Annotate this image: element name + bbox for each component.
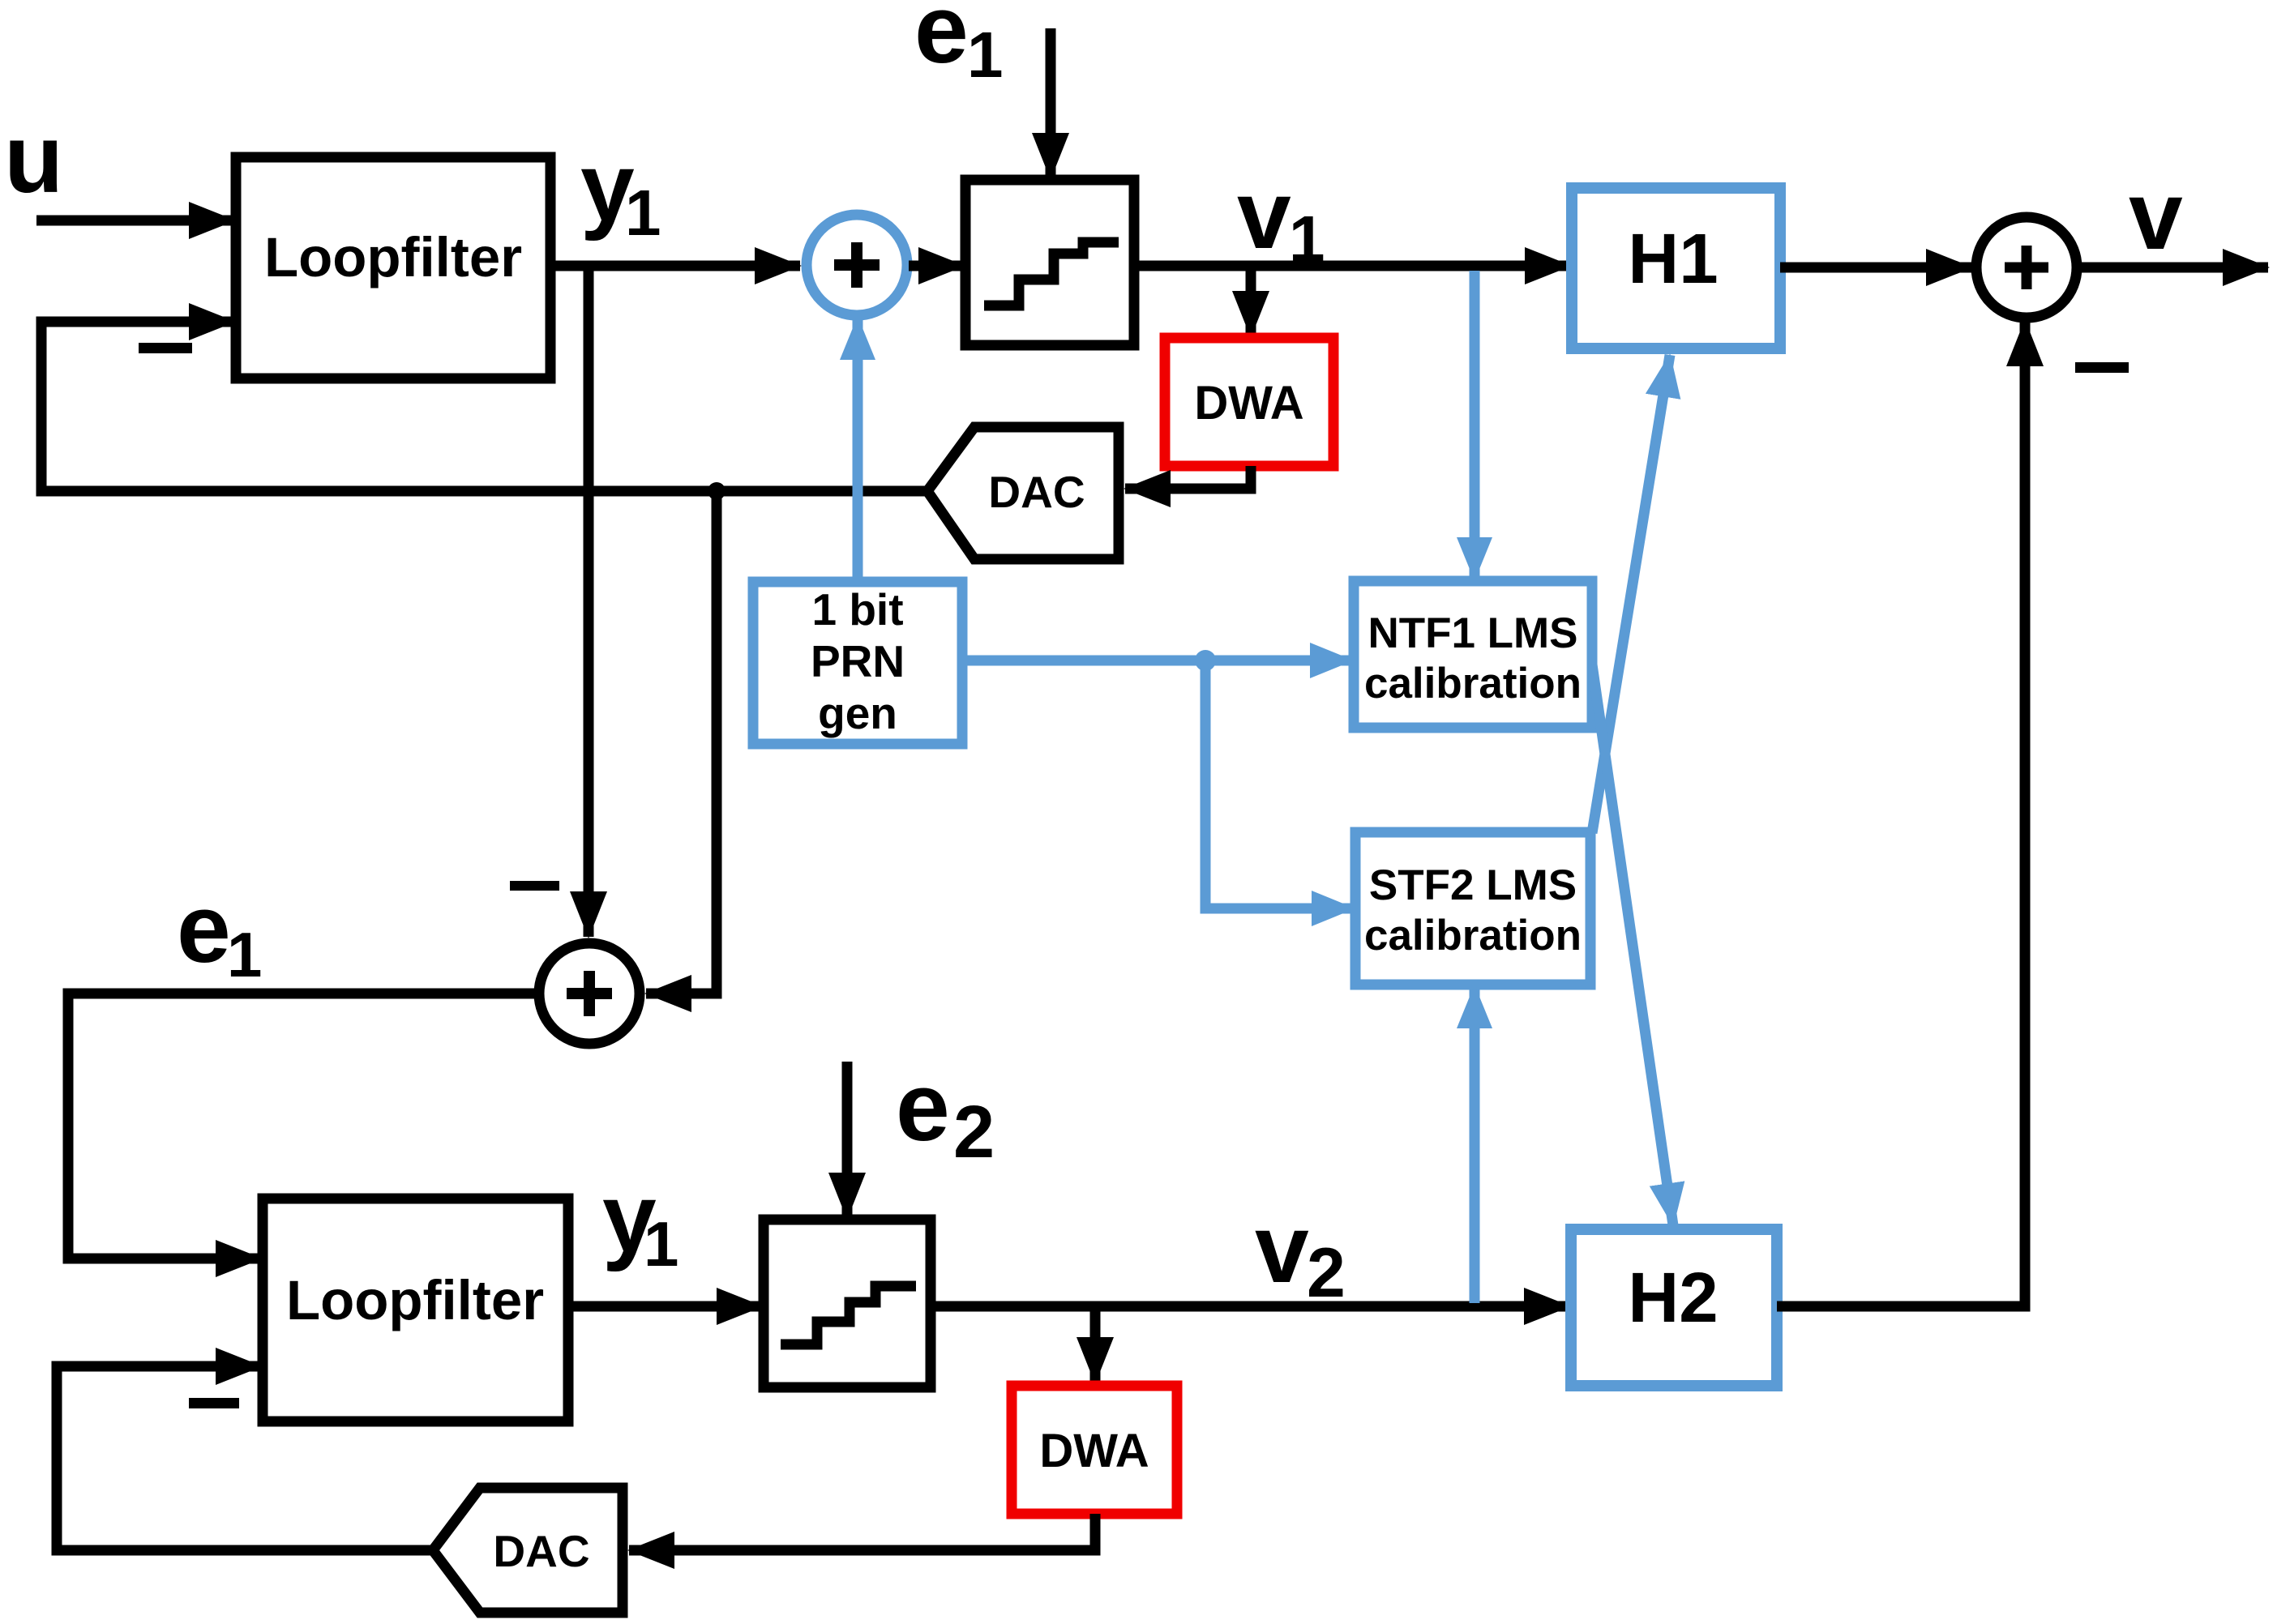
wire v2: quantizer2 to H2: [931, 1301, 1569, 1312]
block 1 bit PRN gen (blue): [753, 582, 962, 744]
svg-text:PRN: PRN: [811, 636, 905, 686]
wire DWA1 to DAC1: [1171, 466, 1251, 489]
svg-text:1: 1: [227, 919, 262, 990]
wire y1: Loopfilter2 to quantizer2: [568, 1301, 762, 1312]
svg-text:STF2 LMS: STF2 LMS: [1369, 861, 1577, 909]
wire y1 branch down to adder2 (negative input): [584, 266, 594, 937]
svg-text:DAC: DAC: [493, 1526, 589, 1576]
svg-text:e: e: [896, 1053, 950, 1161]
svg-text:1 bit: 1 bit: [811, 584, 903, 635]
wire DAC1 feedback to Loopfilter input 2: [41, 322, 929, 491]
block quantizer 2 (staircase): [764, 1220, 931, 1387]
svg-text:gen: gen: [818, 688, 897, 738]
block DAC 1 (pentagon): [927, 427, 1119, 559]
block NTF1 LMS calibration (blue): [1354, 581, 1592, 728]
svg-text:2: 2: [953, 1091, 995, 1173]
svg-text:Loopfilter: Loopfilter: [264, 226, 522, 288]
svg-text:H2: H2: [1628, 1259, 1718, 1337]
wire v1 drop to DWA1: [1246, 271, 1256, 336]
adder summing junction 1 (blue circle, +): [807, 215, 907, 315]
wire H1 to adder3: [1780, 263, 1971, 273]
svg-text:1: 1: [967, 19, 1004, 91]
svg-text:e: e: [914, 0, 969, 83]
block Loopfilter (first stage): [236, 157, 550, 378]
minus sign for adder3 bottom input: [2075, 362, 2129, 373]
adder summing junction 2 (black circle, +): [539, 943, 640, 1044]
svg-text:NTF1 LMS: NTF1 LMS: [1368, 609, 1577, 657]
node junction dot on feedback line: [708, 482, 726, 500]
svg-text:1: 1: [625, 177, 661, 249]
block quantizer 1 (staircase): [965, 180, 1134, 345]
node blue junction dot: [1195, 650, 1216, 671]
wire NTF1 to H2 (blue diagonal): [1592, 665, 1673, 1225]
block H2 (blue): [1571, 1229, 1777, 1386]
wire v1: quantizer1 to H1: [1134, 261, 1570, 271]
wire v2 drop to DWA2: [1090, 1311, 1101, 1383]
wire STF2 to H1 (blue diagonal): [1592, 355, 1670, 833]
wire v output arrow: [2078, 263, 2268, 273]
svg-text:e: e: [177, 874, 231, 983]
svg-text:v: v: [1255, 1194, 1309, 1303]
svg-text:calibration: calibration: [1364, 660, 1582, 707]
wire u input arrow: [36, 216, 234, 226]
wire PRN branch to STF2 (blue): [1205, 660, 1297, 908]
svg-text:v: v: [2129, 161, 2183, 270]
wire v1 drop to NTF1 (blue): [1470, 271, 1480, 579]
block Loopfilter (second stage): [263, 1199, 568, 1421]
svg-text:v: v: [1237, 160, 1291, 269]
wire PRN gen output to NTF1 (blue): [962, 656, 1352, 666]
svg-text:DWA: DWA: [1194, 377, 1303, 430]
block DWA 2 (red): [1012, 1386, 1177, 1514]
minus sign for Loopfilter2 input 2: [189, 1398, 239, 1408]
svg-text:2: 2: [1307, 1234, 1346, 1312]
svg-text:1: 1: [644, 1208, 678, 1280]
svg-text:Loopfilter: Loopfilter: [286, 1269, 544, 1331]
wire H2 output up to adder3 (negative input): [1777, 373, 2025, 1306]
svg-text:1: 1: [1289, 203, 1325, 275]
wire y1: Loopfilter to adder1: [550, 261, 800, 271]
svg-text:DWA: DWA: [1039, 1425, 1149, 1477]
minus sign for Loopfilter input 2: [139, 343, 192, 353]
block DAC 2 (pentagon): [433, 1488, 623, 1613]
wire e2 arrow into quantizer2: [842, 1062, 853, 1218]
svg-text:H1: H1: [1628, 220, 1718, 298]
minus sign for adder2 top input: [510, 881, 559, 891]
wire PRN gen up to adder1 (blue): [853, 318, 863, 582]
wire DWA2 to DAC2: [681, 1514, 1095, 1550]
wire e1: adder2 output to Loopfilter2 input 1: [68, 994, 534, 1259]
wire v2 rise to STF2 bottom (blue): [1470, 986, 1480, 1303]
block H1 (blue): [1572, 188, 1780, 348]
svg-text:DAC: DAC: [988, 467, 1085, 517]
svg-text:calibration: calibration: [1364, 912, 1582, 959]
block STF2 LMS calibration (blue): [1355, 832, 1590, 985]
adder summing junction 3 (black circle, +): [1976, 217, 2077, 318]
block DWA 1 (red): [1165, 338, 1333, 466]
wire feedback branch down to adder2 right input: [697, 491, 717, 994]
svg-text:u: u: [4, 105, 63, 213]
wire e1 arrow into quantizer1: [1046, 28, 1056, 178]
wire DAC2 feedback to Loopfilter2 input 2: [57, 1366, 434, 1550]
wire adder1 to quantizer1: [909, 261, 964, 271]
